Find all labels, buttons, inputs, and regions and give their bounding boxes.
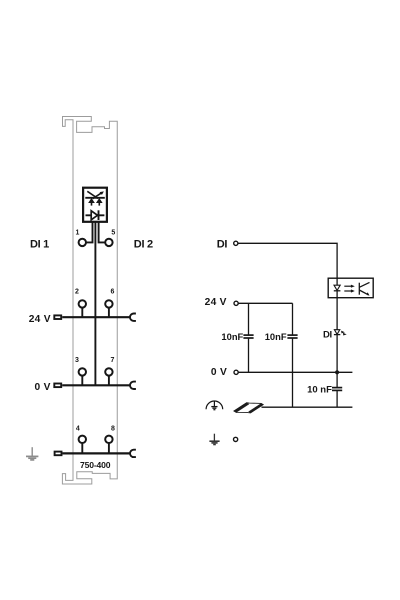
optocoupler internal wire — [336, 278, 338, 298]
capacitor C1 plates — [243, 335, 253, 338]
node 0V circle — [234, 370, 238, 374]
svg-text:8: 8 — [111, 425, 115, 432]
noise-free earth symbol — [206, 401, 223, 410]
LED indicator box — [83, 188, 107, 222]
contact 8 — [105, 436, 112, 443]
leg contact 2 to 24V rail — [81, 308, 83, 318]
svg-text:DI: DI — [217, 238, 228, 250]
DIN rail contact symbol — [234, 403, 263, 413]
earth field connector — [55, 452, 62, 456]
diode D1 in LED box — [86, 210, 105, 220]
0V wire — [238, 371, 352, 373]
node DI circle — [234, 241, 238, 245]
svg-text:24 V: 24 V — [205, 297, 227, 308]
contact 3 — [79, 368, 86, 375]
svg-text:24 V: 24 V — [29, 314, 51, 325]
leg contact 4 to earth rail — [81, 443, 83, 453]
status LED DI — [334, 330, 347, 336]
optocoupler phototransistor — [359, 282, 369, 295]
24V rail wire — [62, 316, 130, 318]
junction dot — [335, 370, 339, 374]
wire leg to contact 1 — [86, 221, 92, 242]
contact 1 — [79, 239, 86, 246]
earth rail wire — [63, 452, 131, 454]
contact 7 — [105, 368, 112, 375]
module earth symbol — [26, 447, 38, 460]
svg-text:10 nF: 10 nF — [307, 385, 332, 396]
capacitor C1 branch wires — [248, 303, 250, 372]
0V power jumper contact arc — [130, 382, 136, 389]
svg-text:0 V: 0 V — [211, 367, 227, 378]
svg-text:10nF: 10nF — [265, 331, 287, 342]
svg-text:7: 7 — [111, 357, 115, 364]
contact 6 — [105, 300, 112, 307]
svg-text:10nF: 10nF — [221, 331, 243, 342]
wire optocoupler down to earth rail — [336, 298, 338, 408]
leg contact 6 to 24V rail — [108, 308, 110, 318]
svg-text:5: 5 — [111, 229, 115, 236]
svg-text:0 V: 0 V — [34, 382, 50, 393]
0V field connector — [54, 384, 61, 388]
svg-text:3: 3 — [75, 357, 79, 364]
earth power jumper contact arc — [130, 450, 136, 457]
optocoupler U1 box — [328, 278, 373, 298]
node 24V circle — [234, 301, 238, 305]
capacitor C2 plates — [287, 335, 297, 338]
0V rail wire — [62, 384, 130, 386]
svg-text:DI 1: DI 1 — [30, 239, 49, 251]
svg-text:2: 2 — [75, 289, 79, 296]
svg-text:1: 1 — [75, 229, 79, 236]
contact 5 — [105, 239, 112, 246]
24V power jumper contact arc — [130, 313, 136, 320]
svg-text:4: 4 — [76, 425, 80, 432]
module outline 750-400 housing — [62, 117, 117, 485]
wire DI to optocoupler — [238, 243, 337, 278]
wire leg to contact 5 — [99, 221, 105, 242]
contact 4 — [79, 436, 86, 443]
svg-text:750-400: 750-400 — [80, 460, 111, 470]
functional earth symbol — [209, 434, 219, 445]
capacitor C2 branch wires — [292, 303, 294, 407]
leg contact 7 to 0V rail — [108, 376, 110, 386]
capacitor C3 plates — [332, 388, 342, 391]
contact 2 — [79, 300, 86, 307]
svg-text:6: 6 — [111, 289, 115, 296]
svg-text:DI 2: DI 2 — [134, 239, 153, 251]
earth rail wire — [262, 406, 353, 408]
24V field connector — [54, 315, 61, 319]
svg-text:DI: DI — [323, 330, 332, 341]
internal bus wire — [94, 221, 96, 385]
leg contact 3 to 0V rail — [81, 376, 83, 386]
dual status LED symbol — [85, 191, 105, 205]
24V wire — [238, 302, 292, 304]
optocoupler light arrows — [344, 285, 355, 293]
unconnected contact circle — [234, 437, 238, 441]
leg contact 8 to earth rail — [108, 443, 110, 453]
optocoupler LED — [334, 285, 340, 290]
